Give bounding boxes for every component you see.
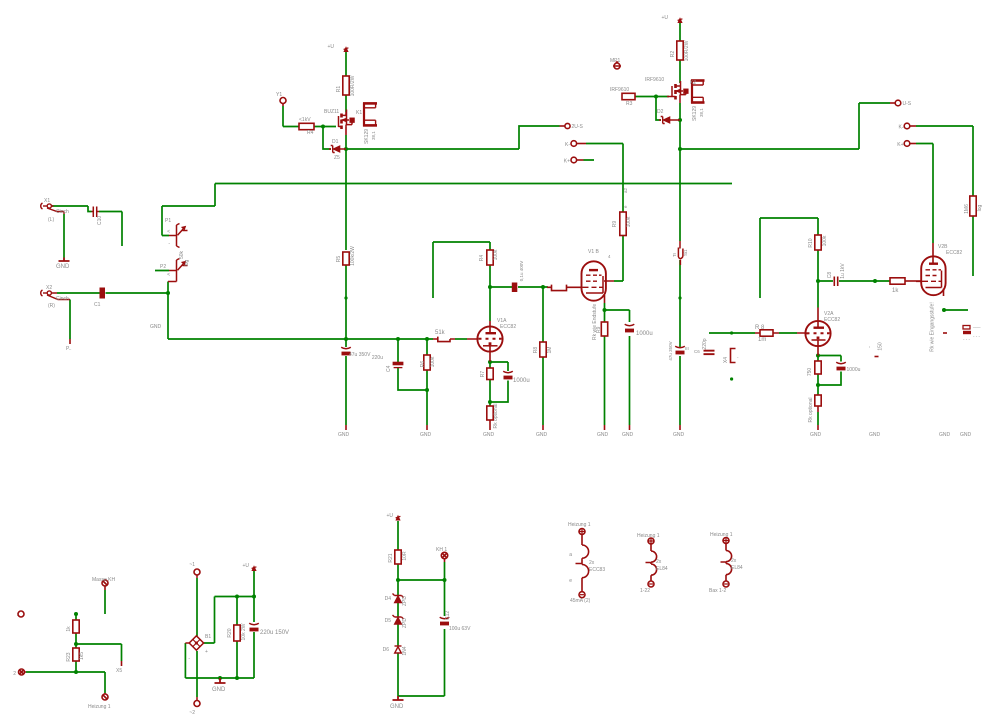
svg-text:1M6: 1M6 [964, 204, 970, 214]
svg-text:R1: R1 [336, 86, 342, 93]
svg-text:EL84: EL84 [731, 565, 743, 571]
svg-text:Heizung 1: Heizung 1 [710, 532, 733, 538]
svg-text:1N4: 1N4 [402, 646, 408, 655]
svg-text:K1: K1 [356, 110, 362, 116]
svg-text:Cinch: Cinch [56, 209, 69, 215]
svg-text:e: e [569, 578, 572, 584]
svg-text:45mA (2): 45mA (2) [570, 598, 591, 604]
svg-text:1000u: 1000u [636, 331, 653, 337]
svg-text:KH 1: KH 1 [436, 547, 447, 553]
svg-text:ECC82: ECC82 [500, 324, 516, 330]
svg-text:GND: GND [483, 432, 495, 438]
svg-text:K+: K+ [897, 142, 903, 148]
svg-text:C6: C6 [694, 349, 700, 354]
svg-text:1-22: 1-22 [640, 588, 650, 594]
svg-text:R 8: R 8 [755, 325, 765, 331]
svg-text:K2: K2 [690, 80, 696, 86]
svg-text:GND: GND [622, 432, 634, 438]
svg-text:P..: P.. [66, 346, 71, 352]
svg-text:Masse KH: Masse KH [92, 577, 115, 583]
svg-text:R4: R4 [479, 255, 485, 262]
svg-text:K-: K- [899, 125, 904, 131]
svg-text:a2: a2 [623, 187, 628, 193]
svg-text:Rk wie Eingangsstufe!: Rk wie Eingangsstufe! [930, 302, 936, 351]
svg-text:- - -: - - - [973, 334, 980, 339]
svg-text:+U: +U [327, 44, 334, 50]
svg-text:X5: X5 [116, 668, 122, 674]
svg-text:ZPD: ZPD [402, 618, 408, 628]
svg-text:IRF9610: IRF9610 [610, 87, 629, 93]
svg-text:1k5: 1k5 [79, 652, 85, 660]
svg-text:GND: GND [869, 432, 881, 438]
svg-text:GND: GND [56, 264, 70, 270]
svg-text:ECC83: ECC83 [589, 567, 605, 573]
svg-text:100R/2W: 100R/2W [684, 40, 690, 61]
svg-text:GND: GND [212, 687, 226, 693]
svg-text:10k 2W: 10k 2W [241, 623, 247, 640]
svg-text::: : [17, 612, 18, 618]
svg-text:a: a [569, 552, 572, 558]
svg-text:1m: 1m [758, 337, 766, 343]
svg-text:100k/2W: 100k/2W [350, 246, 356, 266]
svg-text:Y1: Y1 [276, 92, 282, 98]
svg-text:38,1: 38,1 [699, 108, 704, 117]
svg-text:38,1: 38,1 [371, 131, 376, 140]
svg-text:C1: C1 [94, 302, 101, 308]
svg-text:GND: GND [536, 432, 548, 438]
svg-text:GND: GND [597, 432, 609, 438]
svg-text:150: 150 [878, 342, 884, 351]
svg-text:2x: 2x [589, 560, 595, 566]
svg-text:K-: K- [565, 142, 570, 148]
svg-text:100k: 100k [493, 249, 499, 260]
svg-text:1000u: 1000u [847, 367, 861, 373]
svg-text:Cinch: Cinch [56, 296, 69, 302]
svg-text:EL84: EL84 [656, 566, 668, 572]
svg-text:SK129: SK129 [364, 129, 370, 144]
svg-text:Tr: Tr [672, 252, 677, 257]
svg-text:Rk optional: Rk optional [493, 403, 499, 428]
svg-text:+U: +U [661, 15, 668, 21]
svg-text:P1: P1 [165, 218, 171, 224]
svg-text:50k: 50k [179, 250, 185, 259]
svg-text:1M: 1M [547, 347, 553, 354]
svg-text:R8: R8 [533, 347, 539, 354]
svg-text:220u: 220u [372, 355, 383, 361]
svg-text:(R): (R) [48, 303, 55, 309]
svg-text:SK129: SK129 [692, 106, 698, 121]
svg-text:C10: C10 [97, 216, 103, 225]
svg-text:100R/2W: 100R/2W [350, 75, 356, 96]
svg-text:2x: 2x [656, 559, 662, 565]
svg-text:47u 350V: 47u 350V [668, 341, 673, 360]
svg-text:C8: C8 [827, 272, 833, 279]
svg-text:100k: 100k [430, 356, 436, 367]
svg-text:C12: C12 [445, 611, 451, 620]
svg-text:log: log [977, 204, 983, 211]
svg-text:V1 B: V1 B [588, 249, 600, 255]
svg-text:log: log [184, 259, 190, 266]
svg-text:D2: D2 [657, 109, 664, 115]
svg-text:220p: 220p [702, 338, 708, 349]
svg-text:750: 750 [807, 368, 813, 377]
svg-text:IRF9610: IRF9610 [645, 77, 664, 83]
svg-text:+U: +U [386, 513, 393, 519]
svg-text:ZPD: ZPD [402, 596, 408, 606]
svg-text:Heizung 1: Heizung 1 [88, 704, 111, 710]
svg-text:R4: R4 [307, 130, 314, 136]
svg-text:D5: D5 [385, 618, 392, 624]
svg-text:X4: X4 [723, 357, 729, 363]
svg-text:D4: D4 [385, 596, 392, 602]
svg-text:~2: ~2 [189, 710, 195, 716]
svg-text:R9: R9 [596, 326, 602, 333]
svg-text:B1: B1 [205, 634, 211, 640]
svg-text:220u 150V: 220u 150V [260, 630, 289, 636]
svg-text:BUZ11: BUZ11 [324, 109, 339, 115]
svg-text:MP1: MP1 [610, 58, 621, 64]
svg-text:Si1: Si1 [683, 249, 688, 256]
svg-text:2U-S: 2U-S [572, 124, 584, 130]
svg-text:Heizung 1: Heizung 1 [637, 533, 660, 539]
svg-text:R23: R23 [66, 652, 72, 661]
svg-text:GND: GND [673, 432, 685, 438]
svg-text:GND: GND [390, 704, 404, 710]
svg-text:+: + [205, 649, 208, 655]
svg-text:R21: R21 [388, 553, 394, 562]
svg-text:Bax 1-2: Bax 1-2 [709, 588, 726, 594]
svg-text:(L): (L) [48, 217, 54, 223]
svg-text:X2: X2 [46, 285, 52, 291]
svg-text:1u 1kV: 1u 1kV [840, 263, 846, 279]
svg-text:R20: R20 [227, 628, 233, 637]
svg-text:D1: D1 [332, 139, 339, 145]
svg-text:C4: C4 [386, 365, 392, 372]
svg-text:1k: 1k [66, 626, 72, 632]
svg-text:___: ___ [972, 323, 981, 328]
svg-text:<: < [167, 272, 170, 278]
svg-text:0,1u 400V: 0,1u 400V [519, 261, 524, 282]
svg-text:47u 350V: 47u 350V [349, 352, 371, 358]
svg-text:100u 63V: 100u 63V [449, 626, 471, 632]
svg-text:Rk optional: Rk optional [808, 397, 814, 422]
svg-text:R6: R6 [420, 361, 426, 368]
svg-text:GND: GND [150, 324, 162, 330]
svg-text:U-S: U-S [903, 101, 912, 107]
svg-text:Z5: Z5 [334, 155, 340, 161]
svg-text:<1kV: <1kV [299, 117, 311, 123]
svg-text:R3: R3 [626, 101, 633, 107]
svg-text:III: III [685, 346, 689, 351]
svg-text:R2: R2 [670, 51, 676, 58]
svg-text:<: < [167, 229, 170, 235]
svg-text:GND: GND [420, 432, 432, 438]
svg-text:100k: 100k [626, 216, 632, 227]
svg-text:Heizung 1: Heizung 1 [568, 522, 591, 528]
svg-text:R5: R5 [336, 256, 342, 263]
svg-text:10R: 10R [402, 551, 408, 561]
svg-text:100k: 100k [822, 235, 828, 246]
svg-text:ECC82: ECC82 [824, 317, 840, 323]
svg-text:- - -: - - - [963, 337, 970, 342]
svg-text:2x: 2x [731, 558, 737, 564]
svg-text:X1: X1 [44, 198, 50, 204]
svg-text:1000u: 1000u [513, 378, 530, 384]
svg-text:1k: 1k [892, 288, 899, 294]
svg-text:R9: R9 [612, 221, 618, 228]
svg-text:~1: ~1 [189, 562, 195, 568]
svg-text:GND: GND [939, 432, 951, 438]
svg-text:D6: D6 [383, 647, 390, 653]
svg-text:GND: GND [338, 432, 350, 438]
svg-text:2: 2 [13, 671, 16, 677]
svg-text:R7: R7 [480, 371, 486, 378]
svg-text:ECC82: ECC82 [946, 250, 962, 256]
svg-text:+U: +U [242, 563, 249, 569]
svg-text:P2: P2 [160, 264, 166, 270]
svg-text:Rk wie Endstufe: Rk wie Endstufe [592, 304, 598, 340]
svg-text:R10: R10 [808, 238, 814, 247]
svg-text:GND: GND [960, 432, 972, 438]
svg-text:GND: GND [810, 432, 822, 438]
svg-text:K+: K+ [564, 159, 570, 165]
svg-text:51k: 51k [435, 330, 446, 336]
